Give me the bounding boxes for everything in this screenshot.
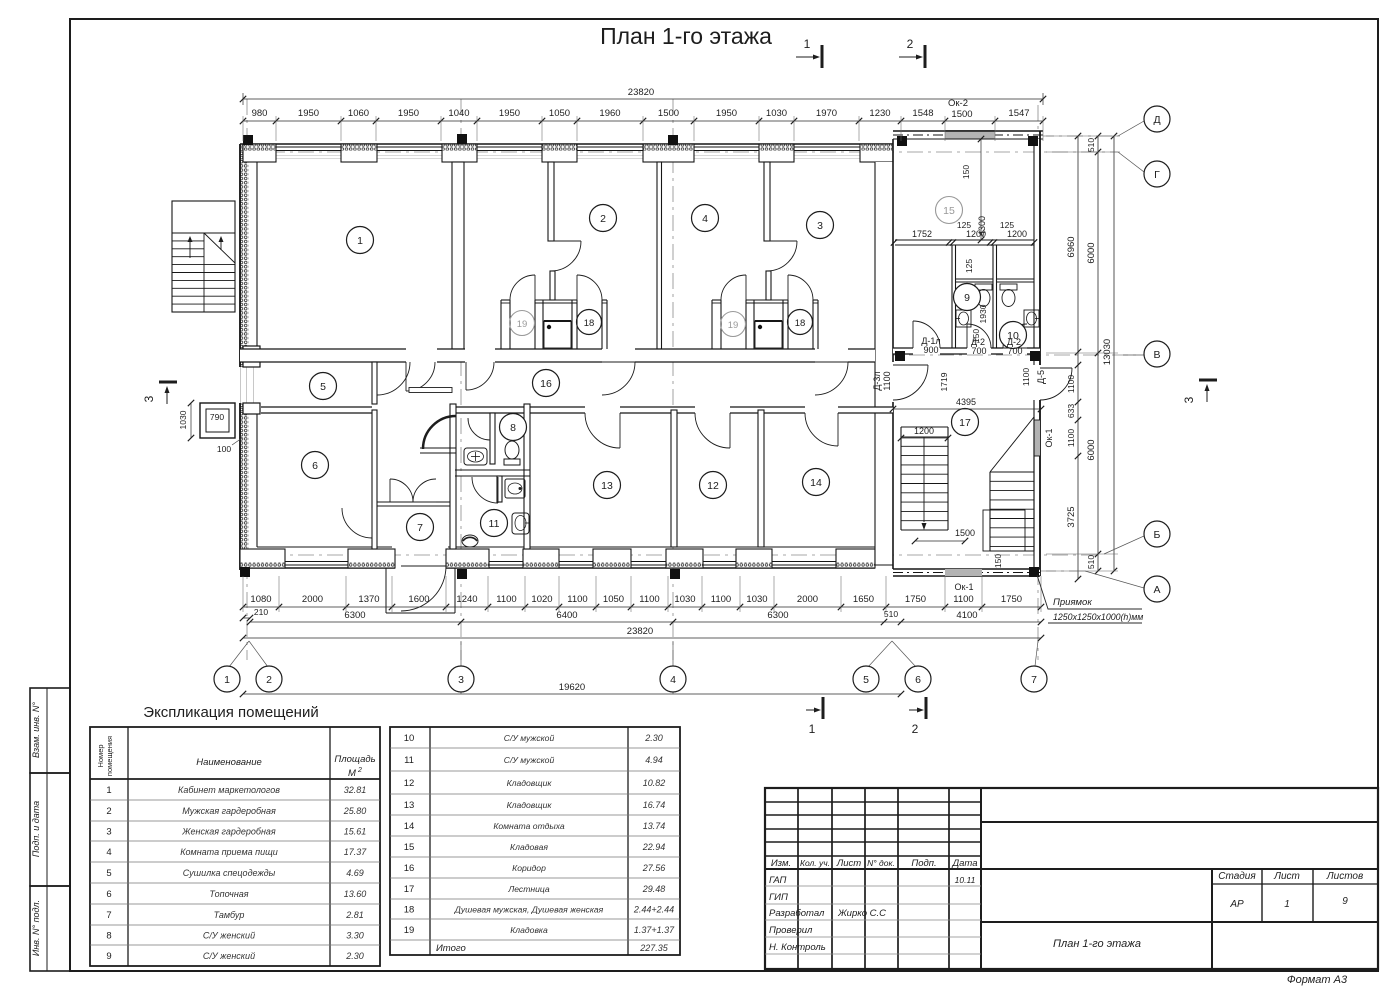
svg-text:16: 16 [404, 863, 415, 874]
svg-text:3: 3 [142, 395, 156, 402]
svg-text:12: 12 [707, 480, 719, 492]
svg-text:7: 7 [106, 910, 111, 921]
svg-text:4100: 4100 [956, 610, 977, 621]
svg-text:Взам. инв. N°: Взам. инв. N° [31, 702, 41, 758]
svg-text:Приямок: Приямок [1053, 597, 1092, 608]
svg-text:1600: 1600 [408, 594, 429, 605]
svg-text:План 1-го этажа: План 1-го этажа [600, 23, 772, 49]
svg-text:Тамбур: Тамбур [214, 910, 245, 920]
svg-text:1: 1 [809, 722, 816, 736]
svg-text:5: 5 [106, 868, 111, 879]
svg-text:В: В [1153, 349, 1160, 361]
svg-text:1100: 1100 [953, 594, 973, 605]
svg-text:510: 510 [884, 609, 898, 619]
svg-text:4.69: 4.69 [346, 868, 364, 878]
svg-text:1100: 1100 [1021, 368, 1031, 387]
svg-text:4: 4 [106, 847, 111, 858]
svg-text:1370: 1370 [358, 594, 379, 605]
svg-text:Топочная: Топочная [209, 889, 248, 899]
svg-text:Ок-2: Ок-2 [948, 98, 968, 109]
svg-text:9: 9 [1342, 896, 1348, 907]
svg-text:15.61: 15.61 [344, 827, 367, 837]
svg-text:Д-3л: Д-3л [872, 371, 882, 390]
svg-text:1080: 1080 [250, 594, 271, 605]
svg-text:1547: 1547 [1008, 108, 1029, 119]
svg-text:9: 9 [106, 951, 111, 962]
svg-text:Комната приема пищи: Комната приема пищи [180, 847, 278, 857]
svg-text:4: 4 [670, 674, 676, 686]
svg-text:А: А [1153, 584, 1160, 596]
svg-text:1030: 1030 [178, 410, 188, 429]
svg-text:1: 1 [1284, 899, 1290, 910]
svg-text:1100: 1100 [882, 371, 892, 390]
svg-text:1230: 1230 [869, 108, 890, 119]
svg-text:1950: 1950 [716, 108, 737, 119]
svg-text:Г: Г [1154, 169, 1160, 181]
svg-text:помещения: помещения [105, 736, 114, 776]
svg-text:Д: Д [1153, 114, 1160, 126]
svg-text:Коридор: Коридор [512, 863, 546, 873]
svg-text:2: 2 [266, 674, 272, 686]
svg-text:N° док.: N° док. [867, 858, 895, 868]
svg-text:14: 14 [810, 477, 822, 489]
svg-text:10: 10 [404, 733, 415, 744]
svg-text:790: 790 [210, 412, 224, 422]
svg-text:13: 13 [404, 800, 415, 811]
svg-text:125: 125 [964, 259, 974, 273]
svg-text:ГИП: ГИП [769, 892, 788, 903]
svg-text:Н. Контроль: Н. Контроль [769, 942, 826, 953]
svg-text:3.30: 3.30 [346, 931, 364, 941]
svg-text:1050: 1050 [549, 108, 570, 119]
svg-text:1200: 1200 [966, 229, 986, 239]
svg-text:1950: 1950 [499, 108, 520, 119]
svg-text:М: М [348, 768, 356, 779]
svg-text:Изм.: Изм. [771, 858, 791, 869]
svg-text:Д-5: Д-5 [1036, 370, 1046, 384]
svg-text:19620: 19620 [559, 682, 585, 693]
svg-text:3: 3 [817, 220, 823, 232]
svg-text:4: 4 [702, 213, 708, 225]
svg-text:2.81: 2.81 [345, 910, 364, 920]
svg-text:2: 2 [106, 806, 111, 817]
svg-text:13.74: 13.74 [643, 821, 666, 831]
svg-text:150: 150 [993, 554, 1003, 568]
svg-text:1548: 1548 [912, 108, 933, 119]
svg-text:17: 17 [959, 417, 971, 429]
svg-text:5: 5 [320, 381, 326, 393]
svg-text:Женская гардеробная: Женская гардеробная [181, 827, 276, 837]
svg-text:1030: 1030 [674, 594, 695, 605]
svg-text:Подп. и дата: Подп. и дата [31, 801, 41, 857]
svg-text:4.94: 4.94 [645, 755, 663, 765]
svg-text:7: 7 [1031, 674, 1037, 686]
svg-text:3: 3 [106, 827, 111, 838]
svg-text:Проверил: Проверил [769, 925, 813, 936]
svg-text:18: 18 [584, 318, 595, 329]
svg-text:29.48: 29.48 [642, 884, 666, 894]
svg-text:125: 125 [957, 220, 971, 230]
svg-text:17: 17 [404, 884, 415, 895]
svg-text:2: 2 [357, 767, 362, 774]
svg-text:6: 6 [312, 460, 318, 472]
svg-text:6400: 6400 [556, 610, 577, 621]
svg-text:Душевая мужская, Душевая женск: Душевая мужская, Душевая женская [454, 905, 604, 915]
svg-text:1: 1 [224, 674, 230, 686]
svg-text:1250х1250х1000(h)мм: 1250х1250х1000(h)мм [1053, 612, 1143, 622]
svg-text:100: 100 [217, 444, 231, 454]
svg-text:16.74: 16.74 [643, 800, 666, 810]
svg-text:10.82: 10.82 [643, 778, 666, 788]
svg-text:18: 18 [795, 318, 806, 329]
svg-text:Кол. уч.: Кол. уч. [800, 858, 830, 868]
svg-text:1750: 1750 [1001, 594, 1022, 605]
svg-text:1100: 1100 [496, 594, 516, 605]
svg-text:32.81: 32.81 [344, 785, 367, 795]
svg-text:8: 8 [106, 931, 111, 942]
svg-text:1020: 1020 [531, 594, 552, 605]
svg-text:11: 11 [404, 755, 414, 766]
svg-text:22.94: 22.94 [642, 842, 666, 852]
svg-text:6960: 6960 [1066, 236, 1077, 257]
svg-text:Листов: Листов [1326, 871, 1363, 882]
svg-text:3: 3 [458, 674, 464, 686]
svg-text:С/У женский: С/У женский [203, 951, 255, 961]
svg-text:Номер: Номер [96, 744, 105, 767]
svg-text:1200: 1200 [1007, 229, 1027, 239]
svg-text:Лист: Лист [836, 858, 862, 869]
svg-text:Лист: Лист [1273, 871, 1300, 882]
svg-text:13.60: 13.60 [344, 889, 367, 899]
svg-text:АР: АР [1229, 899, 1244, 910]
svg-text:1: 1 [106, 785, 111, 796]
svg-text:23820: 23820 [627, 626, 653, 637]
svg-text:700: 700 [1007, 346, 1022, 356]
svg-text:15: 15 [404, 842, 415, 853]
svg-text:2.44+2.44: 2.44+2.44 [633, 905, 674, 915]
svg-text:6300: 6300 [344, 610, 365, 621]
svg-text:3725: 3725 [1066, 506, 1077, 527]
svg-text:6: 6 [106, 889, 111, 900]
svg-text:9: 9 [964, 292, 970, 304]
svg-text:2.30: 2.30 [644, 733, 663, 743]
svg-text:510: 510 [1086, 555, 1096, 569]
svg-text:Кладовщик: Кладовщик [507, 800, 553, 810]
svg-text:ГАП: ГАП [769, 875, 787, 886]
svg-text:2.30: 2.30 [345, 951, 364, 961]
svg-text:1: 1 [804, 37, 811, 51]
svg-text:1500: 1500 [951, 109, 972, 120]
svg-text:Сушилка спецодежды: Сушилка спецодежды [183, 868, 276, 878]
svg-text:6000: 6000 [1086, 439, 1097, 460]
svg-text:3: 3 [1182, 396, 1196, 403]
svg-text:Формат А3: Формат А3 [1287, 974, 1348, 986]
svg-text:125: 125 [1000, 220, 1014, 230]
svg-text:1100: 1100 [567, 594, 587, 605]
svg-text:Ок-1: Ок-1 [1044, 429, 1054, 448]
svg-text:1060: 1060 [348, 108, 369, 119]
svg-text:С/У мужской: С/У мужской [504, 755, 555, 765]
svg-text:17.37: 17.37 [344, 847, 368, 857]
svg-text:Стадия: Стадия [1218, 871, 1256, 882]
svg-text:1950: 1950 [398, 108, 419, 119]
svg-text:1030: 1030 [746, 594, 767, 605]
svg-text:2: 2 [907, 37, 914, 51]
svg-text:1050: 1050 [603, 594, 624, 605]
svg-text:13030: 13030 [1102, 339, 1113, 365]
svg-text:Разработал: Разработал [769, 908, 825, 919]
svg-text:2000: 2000 [797, 594, 818, 605]
svg-text:1100: 1100 [1066, 375, 1076, 394]
svg-text:1100: 1100 [639, 594, 659, 605]
svg-text:1970: 1970 [816, 108, 837, 119]
svg-text:Наименование: Наименование [196, 757, 262, 768]
svg-text:1030: 1030 [766, 108, 787, 119]
svg-text:Кабинет маркетологов: Кабинет маркетологов [178, 785, 280, 795]
svg-text:6000: 6000 [1086, 242, 1097, 263]
svg-text:План 1-го этажа: План 1-го этажа [1053, 938, 1141, 950]
svg-text:Подп.: Подп. [911, 858, 936, 869]
svg-text:1750: 1750 [905, 594, 926, 605]
svg-text:1240: 1240 [456, 594, 477, 605]
svg-text:1950: 1950 [298, 108, 319, 119]
svg-text:700: 700 [971, 346, 986, 356]
svg-text:Б: Б [1154, 529, 1161, 541]
svg-text:4395: 4395 [956, 397, 976, 407]
svg-text:2000: 2000 [302, 594, 323, 605]
svg-text:12: 12 [404, 778, 415, 789]
svg-text:1: 1 [357, 235, 363, 247]
svg-text:15: 15 [943, 205, 955, 217]
svg-text:1500: 1500 [955, 528, 975, 538]
svg-text:Площадь: Площадь [334, 754, 375, 765]
svg-text:11: 11 [489, 518, 500, 530]
svg-text:14: 14 [404, 821, 415, 832]
svg-text:Лестница: Лестница [507, 884, 550, 894]
svg-text:19: 19 [517, 319, 528, 330]
svg-text:Жирко С.С: Жирко С.С [837, 908, 886, 919]
svg-text:633: 633 [1066, 404, 1076, 418]
svg-text:Итого: Итого [436, 943, 466, 954]
svg-text:С/У женский: С/У женский [203, 931, 255, 941]
svg-text:1040: 1040 [448, 108, 469, 119]
svg-text:1960: 1960 [599, 108, 620, 119]
svg-text:Кладовая: Кладовая [510, 842, 548, 852]
svg-text:6: 6 [915, 674, 921, 686]
svg-text:210: 210 [254, 607, 268, 617]
svg-text:1200: 1200 [914, 426, 934, 436]
svg-text:16: 16 [540, 378, 552, 390]
svg-text:1500: 1500 [658, 108, 679, 119]
svg-text:18: 18 [404, 905, 415, 916]
svg-text:27.56: 27.56 [642, 863, 666, 873]
svg-text:19: 19 [728, 320, 739, 331]
svg-text:Кладовщик: Кладовщик [507, 778, 553, 788]
svg-text:900: 900 [923, 345, 938, 355]
svg-text:Комната отдыха: Комната отдыха [493, 821, 565, 831]
svg-text:С/У мужской: С/У мужской [504, 733, 555, 743]
svg-text:510: 510 [1086, 138, 1096, 152]
svg-text:1100: 1100 [711, 594, 731, 605]
svg-text:13: 13 [601, 480, 613, 492]
svg-text:Кладовка: Кладовка [510, 925, 548, 935]
svg-text:227.35: 227.35 [639, 943, 669, 953]
svg-text:23820: 23820 [628, 87, 654, 98]
svg-text:2: 2 [600, 213, 606, 225]
svg-text:10.11: 10.11 [955, 875, 976, 885]
svg-text:1752: 1752 [912, 229, 932, 239]
svg-text:Дата: Дата [951, 858, 977, 869]
svg-text:8: 8 [510, 422, 516, 434]
svg-text:7: 7 [417, 522, 423, 534]
svg-text:Инв. N° подл.: Инв. N° подл. [31, 900, 41, 956]
svg-text:150: 150 [961, 165, 971, 179]
svg-text:1.37+1.37: 1.37+1.37 [634, 925, 675, 935]
svg-text:19: 19 [404, 925, 415, 936]
svg-text:Ок-1: Ок-1 [955, 582, 974, 592]
svg-text:1100: 1100 [1066, 429, 1076, 448]
svg-text:Экспликация помещений: Экспликация помещений [143, 704, 318, 721]
svg-text:6300: 6300 [767, 610, 788, 621]
svg-text:980: 980 [252, 108, 268, 119]
svg-text:25.80: 25.80 [343, 806, 367, 816]
svg-text:1719: 1719 [939, 372, 949, 391]
svg-text:5: 5 [863, 674, 869, 686]
svg-text:1930: 1930 [978, 304, 988, 323]
svg-text:2: 2 [912, 722, 919, 736]
svg-text:Мужская гардеробная: Мужская гардеробная [182, 806, 276, 816]
svg-text:1650: 1650 [853, 594, 874, 605]
